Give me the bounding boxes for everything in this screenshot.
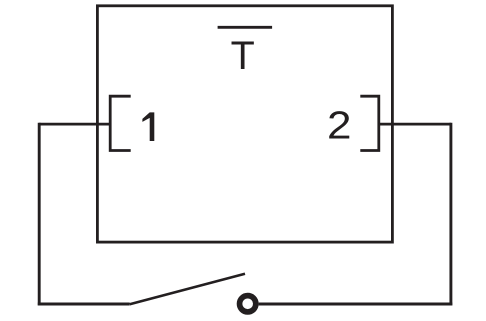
wire right vertical <box>449 123 452 306</box>
label 2 <box>327 103 352 147</box>
winding 2 bracket <box>360 96 379 150</box>
switch contact circle <box>240 296 256 312</box>
label 1 <box>142 112 154 141</box>
overline of T <box>218 26 273 29</box>
wire bottom right <box>259 303 453 306</box>
transformer box T <box>97 6 392 242</box>
switch S lever <box>130 274 245 305</box>
wire pin1 <box>39 123 110 126</box>
wire bottom left <box>38 303 130 306</box>
wire pin2 <box>379 123 451 126</box>
wire left vertical <box>38 123 41 306</box>
svg-text:T: T <box>231 34 255 78</box>
svg-text:2: 2 <box>327 103 352 147</box>
winding 1 bracket <box>110 96 131 150</box>
